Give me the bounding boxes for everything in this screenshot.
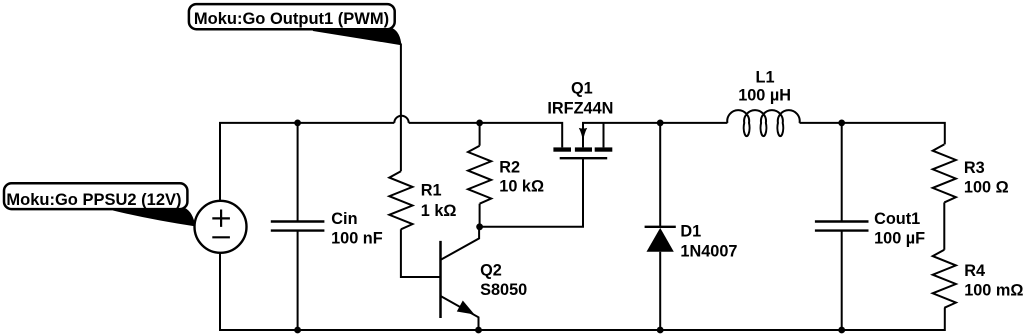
wire R2 bottom lead to gate node xyxy=(479,204,481,227)
resistor R1 zigzag xyxy=(389,171,412,229)
wire D1 top lead xyxy=(659,123,661,227)
svg-text:IRFZ44N: IRFZ44N xyxy=(547,99,613,117)
wire left branch: source to top rail, rail to hop xyxy=(220,123,394,201)
junction node top Cout1 xyxy=(838,120,845,127)
capacitor Cin plates xyxy=(271,222,325,231)
svg-text:100 nF: 100 nF xyxy=(331,229,383,247)
svg-text:D1: D1 xyxy=(680,222,701,240)
svg-text:100 µF: 100 µF xyxy=(874,230,925,248)
wire R1 bottom lead and Q2 base xyxy=(401,229,441,277)
svg-text:R3: R3 xyxy=(964,159,985,177)
callout tail Output1 xyxy=(312,29,401,46)
svg-text:1N4007: 1N4007 xyxy=(680,243,737,261)
junction node bottom D1 xyxy=(657,327,664,334)
wire D1 bottom lead xyxy=(659,252,661,330)
svg-text:Q1: Q1 xyxy=(571,79,593,97)
svg-text:Moku:Go Output1 (PWM): Moku:Go Output1 (PWM) xyxy=(194,10,389,28)
wire Q2 collector to gate node xyxy=(441,227,480,260)
inductor L1 coil xyxy=(727,110,799,136)
callout box Moku:Go Output1 (PWM) xyxy=(189,4,395,29)
wire Q1 source lead xyxy=(603,123,605,147)
junction node top D1 xyxy=(657,120,664,127)
callout tail PPSU2 xyxy=(113,208,195,226)
callout box Moku:Go PPSU2 (12V) xyxy=(4,183,187,209)
wire hop over PWM line xyxy=(394,116,408,123)
diode D1 cathode bar xyxy=(645,226,676,228)
wire top rail right segment with Q1 body stem xyxy=(583,123,727,147)
svg-text:L1: L1 xyxy=(756,68,775,86)
junction node top Cin xyxy=(294,120,301,127)
svg-text:Cout1: Cout1 xyxy=(874,210,920,228)
wire Cin top lead xyxy=(297,123,299,222)
wire bottom rail with R4 lead xyxy=(220,253,945,330)
svg-text:R1: R1 xyxy=(421,182,442,200)
svg-text:100 µH: 100 µH xyxy=(738,87,791,105)
svg-text:10 kΩ: 10 kΩ xyxy=(499,178,544,196)
junction node bottom Cout1 xyxy=(838,327,845,334)
svg-text:R4: R4 xyxy=(964,262,985,280)
resistor R3 zigzag xyxy=(933,144,956,202)
junction node bottom Cin xyxy=(294,327,301,334)
mosfet Q1 channel bars xyxy=(553,147,571,151)
resistor R4 zigzag xyxy=(933,250,956,308)
junction node gate xyxy=(476,223,483,230)
svg-text:S8050: S8050 xyxy=(480,281,527,299)
svg-text:1 kΩ: 1 kΩ xyxy=(421,202,457,220)
svg-text:Moku:Go PPSU2 (12V): Moku:Go PPSU2 (12V) xyxy=(6,191,181,209)
voltage source V1 circle xyxy=(195,201,247,253)
junction node bottom Q2 emitter xyxy=(475,327,482,334)
junction node top R2 xyxy=(476,120,483,127)
wire Cin bottom lead xyxy=(297,231,299,330)
wire PWM vertical from callout to R1 xyxy=(400,44,402,172)
wire rail after coil to R3 xyxy=(800,123,945,144)
wire Cout1 top lead xyxy=(841,123,843,222)
wire Q2 emitter to bottom rail xyxy=(441,296,479,330)
mosfet Q1 gate bar xyxy=(560,157,608,159)
svg-text:R2: R2 xyxy=(499,159,520,177)
diode D1 triangle xyxy=(647,228,674,252)
transistor Q2 emitter arrow xyxy=(457,301,475,315)
voltage source minus sign xyxy=(212,236,230,238)
capacitor Cout1 plates xyxy=(815,222,869,231)
wire Cout1 bottom lead xyxy=(841,231,843,330)
svg-text:100 mΩ: 100 mΩ xyxy=(964,281,1023,299)
svg-text:Cin: Cin xyxy=(331,210,357,228)
wire R2 top lead xyxy=(479,123,481,146)
wire R3 to R4 xyxy=(943,202,945,249)
svg-text:Q2: Q2 xyxy=(480,261,502,279)
transistor Q2 bar xyxy=(439,241,442,318)
mosfet Q1 body arrow xyxy=(579,128,587,142)
wire top rail hop to Q1 drain xyxy=(409,123,563,147)
svg-text:100 Ω: 100 Ω xyxy=(964,179,1009,197)
wire Q1 gate to node xyxy=(480,158,583,227)
resistor R2 zigzag xyxy=(468,146,491,204)
voltage source plus sign xyxy=(212,210,230,227)
